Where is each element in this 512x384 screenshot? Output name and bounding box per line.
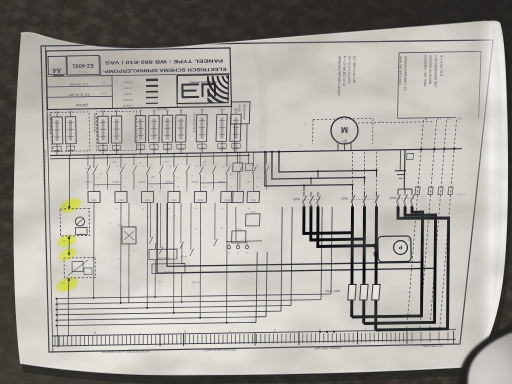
svg-text:7: 7 [139,43,141,47]
